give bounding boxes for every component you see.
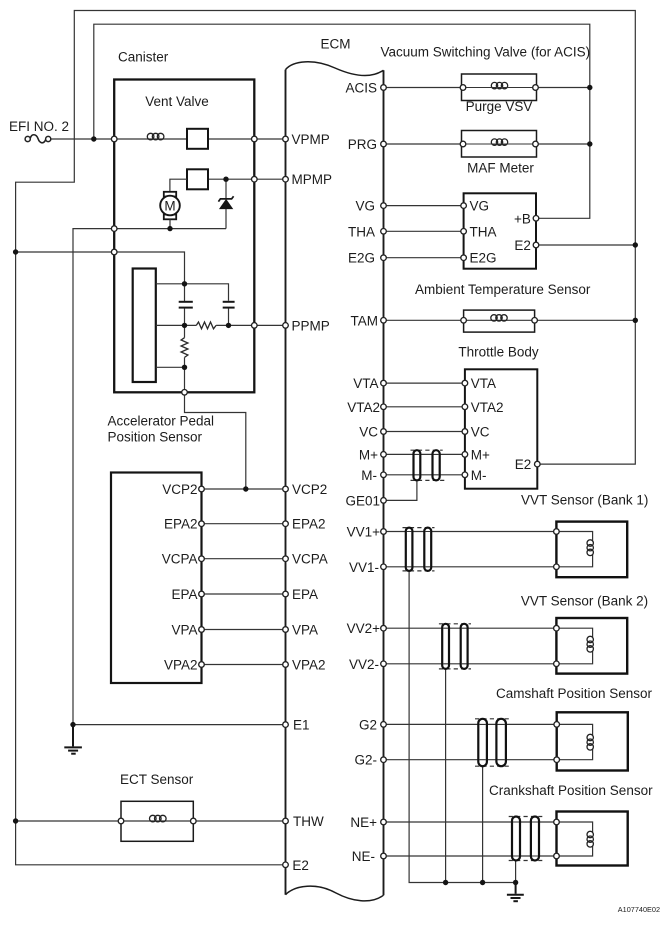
VVT sensor (bank 1) box	[556, 522, 627, 578]
pin APP VCP2	[199, 486, 205, 492]
pin MAF E2	[533, 242, 539, 248]
pin ECM E2b	[283, 862, 289, 868]
svg-text:VV2+: VV2+	[347, 621, 381, 636]
vacuum switching valve (purge VSV) box	[462, 74, 537, 101]
pin cam +	[554, 722, 560, 728]
junction E2/THW	[13, 818, 18, 823]
inductor MAF VSV coil	[491, 139, 507, 145]
valve (pump module) square	[187, 169, 208, 189]
pin APP EPA	[199, 591, 205, 597]
junction diode top	[223, 177, 228, 182]
wire ECT sensor to THW	[193, 820, 285, 822]
svg-text:THA: THA	[470, 224, 497, 239]
wire E2G row	[384, 257, 464, 259]
wire VPA2 row	[202, 664, 286, 666]
pin ECM GE01	[381, 498, 387, 504]
shielded pair NE	[509, 817, 543, 861]
capacitor C1	[179, 284, 193, 326]
canister box	[114, 80, 254, 393]
svg-text:PRG: PRG	[348, 137, 377, 152]
svg-text:VPA: VPA	[171, 623, 197, 638]
svg-text:Camshaft Position Sensor: Camshaft Position Sensor	[496, 686, 653, 701]
svg-text:Position Sensor: Position Sensor	[108, 430, 203, 445]
wire MAF VSV to +B net	[536, 143, 590, 145]
svg-text:Vent Valve: Vent Valve	[145, 94, 209, 109]
wire VV1- row	[384, 566, 557, 568]
vacuum switching valve (MAF purge) box	[462, 131, 537, 158]
wire M- row	[384, 474, 465, 476]
svg-text:VTA2: VTA2	[347, 400, 380, 415]
wire VCPA row	[202, 558, 286, 560]
pin ECM VPA2	[283, 662, 289, 668]
pin VVT1 +	[554, 529, 560, 535]
inductor TAM coil	[491, 315, 507, 321]
pin ECM NE+	[381, 819, 387, 825]
svg-text:Accelerator Pedal: Accelerator Pedal	[108, 414, 215, 429]
ECM-SECTION	[286, 62, 384, 901]
junction E1/ground	[70, 722, 75, 727]
junction E2/canister	[13, 249, 18, 254]
shielded pair VV1	[403, 528, 435, 571]
junction +B/purge	[587, 85, 592, 90]
wire EPA2 row	[202, 523, 286, 525]
inductor ECT thermistor coil	[150, 815, 167, 822]
ECM left boundary line	[285, 70, 287, 895]
wire GE01 to M shield	[384, 480, 417, 500]
pin APP VPA	[199, 627, 205, 633]
inductor crankshaft coil	[587, 831, 593, 847]
wire bottom terminal to canister bottom pin	[184, 367, 186, 392]
wire VTA2 row	[384, 406, 465, 408]
svg-text:Crankshaft Position Sensor: Crankshaft Position Sensor	[489, 783, 653, 798]
pin APP EPA2	[199, 521, 205, 527]
svg-text:TAM: TAM	[351, 313, 379, 328]
wire camshaft sensor internal	[557, 724, 593, 759]
wire sensor bottom terminal row	[156, 366, 185, 368]
node TAM R	[532, 318, 538, 324]
pin APP VCPA	[199, 556, 205, 562]
node canister VCP2 out	[182, 390, 188, 396]
node canister MPMP out	[252, 176, 258, 182]
node canister VPMP in	[111, 136, 117, 142]
wire inside TAM sensor	[464, 319, 535, 321]
wire G2- row	[384, 759, 557, 761]
inductor VVT2 coil	[587, 636, 593, 652]
svg-text:M+: M+	[471, 447, 490, 462]
junction drain NE/gnd	[513, 880, 518, 885]
svg-text:VV1-: VV1-	[349, 560, 379, 575]
pin ECM EPA2	[283, 521, 289, 527]
pressure sensor element (canister)	[133, 269, 156, 383]
wire inside purge VSV	[463, 87, 536, 89]
svg-text:ACIS: ACIS	[345, 81, 377, 96]
pin ECM G2-	[381, 757, 387, 763]
pin ECM VTA	[381, 380, 387, 386]
svg-text:ECM: ECM	[321, 37, 351, 52]
svg-text:Vacuum Switching Valve (for AC: Vacuum Switching Valve (for ACIS)	[381, 45, 591, 60]
svg-text:EPA: EPA	[292, 587, 318, 602]
pin TB VTA2	[462, 404, 468, 410]
pin ECM VPA	[283, 627, 289, 633]
wire inside MAF VSV	[463, 143, 536, 145]
svg-text:VPMP: VPMP	[292, 132, 330, 147]
svg-text:VCP2: VCP2	[162, 482, 197, 497]
inductor VVT1 coil	[587, 540, 593, 556]
pin ECM G2	[381, 722, 387, 728]
pin APP VPA2	[199, 662, 205, 668]
svg-text:VTA: VTA	[471, 376, 496, 391]
wire E2 branch to canister sensor supply pin	[16, 251, 115, 253]
pin ECM VV1+	[381, 529, 387, 535]
inductor purge VSV coil	[491, 82, 507, 88]
pin circles	[111, 85, 559, 868]
pin TB VC	[462, 429, 468, 435]
pin cam -	[554, 757, 560, 763]
wire TAM to sensor	[384, 319, 464, 321]
wire VCP2 row	[202, 488, 286, 490]
node MAF VSV R	[533, 141, 539, 147]
resistor (vertical)	[181, 325, 188, 367]
pin ECM VV2-	[381, 661, 387, 667]
pin TB VTA	[462, 380, 468, 386]
wire PRG to MAF VSV	[384, 143, 464, 145]
wire VG row	[384, 205, 464, 207]
wire THA row	[384, 230, 464, 232]
junction sensor row2b	[226, 323, 231, 328]
svg-text:Ambient Temperature Sensor: Ambient Temperature Sensor	[415, 282, 591, 297]
wire through ECT sensor	[121, 820, 193, 822]
motor M (pump)	[160, 192, 180, 229]
wire NE shield drain	[515, 861, 517, 883]
pin TB M+	[462, 452, 468, 458]
wire M+ row	[384, 453, 465, 455]
ECM top wave	[286, 62, 384, 76]
pin ECM PPMP	[283, 323, 289, 329]
wire sensor top terminal row	[156, 284, 229, 301]
wire VVT1 internal	[556, 532, 592, 567]
svg-text:EPA2: EPA2	[164, 517, 198, 532]
wire G2 row	[384, 723, 557, 725]
wire square to motor	[170, 179, 187, 192]
pin VVT2 -	[554, 661, 560, 667]
svg-text:VG: VG	[470, 199, 490, 214]
pin ECM VG	[381, 203, 387, 209]
wire VPMP row inside canister	[114, 138, 254, 140]
pin VVT1 -	[554, 564, 560, 570]
node ECT R	[191, 818, 197, 824]
svg-text:EPA2: EPA2	[292, 517, 326, 532]
junction E2/MAF	[633, 242, 638, 247]
ECM right boundary line	[383, 70, 385, 895]
wire +B net: inner top loop	[94, 24, 590, 218]
wire resistor to PPMP exit	[216, 324, 285, 326]
svg-text:VC: VC	[471, 425, 490, 440]
svg-text:GE01: GE01	[345, 493, 380, 508]
pin ECM VC	[381, 429, 387, 435]
wire VC row	[384, 431, 465, 433]
svg-text:E2: E2	[292, 858, 309, 873]
svg-text:E1: E1	[293, 718, 310, 733]
svg-text:EPA: EPA	[171, 587, 197, 602]
wire VV2- row	[384, 663, 557, 665]
MAF meter box	[464, 193, 536, 268]
svg-text:A107740E02: A107740E02	[618, 905, 660, 914]
svg-text:M+: M+	[359, 447, 378, 462]
svg-text:VCPA: VCPA	[292, 552, 328, 567]
inductor vent valve coil	[147, 133, 164, 140]
pin ECM VPMP	[283, 136, 289, 142]
wire E2 branch to ECT sensor	[16, 820, 121, 822]
wire EPA row	[202, 593, 286, 595]
svg-text:E2G: E2G	[470, 251, 497, 266]
wire G2 shield drain	[482, 766, 484, 882]
junction motor return	[167, 226, 172, 231]
wire ACIS to purge VSV	[384, 87, 464, 89]
pin crank -	[554, 853, 560, 859]
svg-text:Throttle Body: Throttle Body	[458, 344, 539, 359]
node purge VSV L	[460, 85, 466, 91]
pin ECM E1	[283, 722, 289, 728]
wire VTA row	[384, 382, 465, 384]
svg-text:VTA: VTA	[353, 376, 378, 391]
svg-text:VV1+: VV1+	[347, 525, 381, 540]
svg-text:VCPA: VCPA	[162, 552, 198, 567]
ECT sensor box	[121, 801, 193, 841]
svg-text:THW: THW	[293, 814, 324, 829]
svg-text:M: M	[164, 198, 175, 213]
pin ECM NE-	[381, 853, 387, 859]
wire VV1+ row	[384, 531, 557, 533]
svg-text:M-: M-	[471, 468, 487, 483]
node ECT L	[118, 818, 124, 824]
inductor camshaft coil	[587, 734, 593, 750]
svg-text:VVT Sensor (Bank 2): VVT Sensor (Bank 2)	[521, 593, 648, 608]
shielded pair G2	[475, 719, 509, 766]
wire motor/diode bottom return	[114, 228, 226, 230]
pin ECM VV1-	[381, 564, 387, 570]
wire VPA row	[202, 629, 286, 631]
junction sensor row3	[182, 365, 187, 370]
pin MAF THA	[461, 229, 467, 235]
svg-text:G2: G2	[359, 717, 377, 732]
pin ECM EPA	[283, 591, 289, 597]
svg-text:VTA2: VTA2	[471, 400, 504, 415]
wire MPMP row	[208, 178, 286, 180]
pin ECM M+	[381, 452, 387, 458]
junction EFI/+B	[91, 136, 96, 141]
wire canister VCP2 feed down to VCP2 row	[185, 392, 246, 489]
camshaft position sensor box	[557, 712, 628, 770]
valve (vent valve actuator) square	[187, 129, 208, 149]
svg-text:Canister: Canister	[118, 50, 169, 65]
wire NE- row	[384, 855, 557, 857]
pin ECM THW	[283, 818, 289, 824]
pin ECM E2G	[381, 255, 387, 261]
node canister PPMP out	[252, 323, 258, 329]
wire canister pump return to E1	[73, 229, 286, 725]
pin ECM TAM	[381, 318, 387, 324]
node canister return	[111, 226, 117, 232]
svg-text:NE+: NE+	[350, 815, 377, 830]
resistor (horizontal)	[196, 322, 216, 329]
pin MAF VG	[461, 203, 467, 209]
svg-text:Purge VSV: Purge VSV	[466, 99, 533, 114]
svg-text:PPMP: PPMP	[292, 318, 330, 333]
svg-text:MAF Meter: MAF Meter	[467, 160, 534, 175]
svg-text:M-: M-	[361, 468, 377, 483]
wire VV2+ row	[384, 627, 557, 629]
wire NE+ row	[384, 821, 557, 823]
RIGHT-SECTION	[384, 88, 636, 883]
svg-text:+B: +B	[514, 211, 531, 226]
pin TB E2	[535, 461, 541, 467]
node purge VSV R	[533, 85, 539, 91]
svg-text:E2G: E2G	[348, 251, 375, 266]
wire TAM sensor to right E2 net	[535, 319, 636, 321]
wire VV1 shield drain	[409, 571, 515, 883]
pin MAF +B	[533, 216, 539, 222]
node canister supply	[111, 249, 117, 255]
fuse EFI NO. 2	[25, 135, 51, 143]
junction E2/TAM	[633, 318, 638, 323]
node MAF VSV L	[460, 141, 466, 147]
shielded pair VV2	[439, 624, 471, 669]
svg-text:VG: VG	[355, 199, 375, 214]
junction sensor row1	[182, 281, 187, 286]
pin ECM VCPA	[283, 556, 289, 562]
pin ECM ACIS	[381, 85, 387, 91]
svg-text:EFI NO. 2: EFI NO. 2	[9, 119, 69, 134]
pin ECM VV2+	[381, 625, 387, 631]
wire crankshaft sensor internal	[557, 822, 593, 856]
ambient temperature sensor box	[464, 310, 535, 332]
wire VV2 shield drain	[445, 669, 447, 883]
svg-text:THA: THA	[348, 224, 375, 239]
wire MAF E2 to right E2 net	[536, 244, 635, 246]
pin VVT2 +	[554, 625, 560, 631]
svg-text:VC: VC	[359, 425, 378, 440]
VVT sensor (bank 2) box	[556, 618, 627, 674]
svg-text:VVT Sensor (Bank 1): VVT Sensor (Bank 1)	[521, 492, 648, 507]
svg-text:VCP2: VCP2	[292, 482, 327, 497]
pin ECM VTA2	[381, 404, 387, 410]
ECM bottom wave	[286, 886, 384, 901]
wire sensor supply: pin to top rail	[114, 252, 184, 284]
svg-text:VPA2: VPA2	[292, 658, 326, 673]
node TAM L	[461, 318, 467, 324]
throttle body box	[465, 369, 537, 488]
svg-text:VPA: VPA	[292, 623, 318, 638]
junction VCP2	[243, 486, 248, 491]
wire VPMP canister to ECM	[254, 138, 285, 140]
capacitor C2	[223, 302, 235, 326]
junction sensor row2a	[182, 323, 187, 328]
pin ECM M-	[381, 472, 387, 478]
svg-text:G2-: G2-	[354, 753, 377, 768]
pin MAF E2G	[461, 255, 467, 261]
wire PPMP middle row	[156, 324, 197, 326]
junction drain G2	[480, 880, 485, 885]
pin ECM VCP2	[283, 486, 289, 492]
svg-text:ECT Sensor: ECT Sensor	[120, 772, 194, 787]
node canister VPMP out	[252, 136, 258, 142]
svg-text:MPMP: MPMP	[292, 172, 333, 187]
pin ECM MPMP	[283, 176, 289, 182]
wire EFI NO.2 fuse to canister VPMP pin	[51, 138, 114, 140]
crankshaft position sensor box	[557, 812, 628, 866]
junction drain VV2	[443, 880, 448, 885]
wire purge VSV to +B net	[536, 87, 590, 89]
diode (zener) across motor	[218, 179, 233, 228]
ground (shield drain, bottom)	[507, 883, 524, 902]
pin ECM PRG	[381, 141, 387, 147]
pin TB M-	[462, 472, 468, 478]
pin ECM THA	[381, 229, 387, 235]
svg-text:E2: E2	[514, 238, 531, 253]
svg-text:E2: E2	[515, 457, 532, 472]
shielded pair M+/M-	[411, 450, 446, 480]
junction +B/MAF VSV	[587, 141, 592, 146]
pin crank +	[554, 819, 560, 825]
ground (E1 net, left)	[64, 725, 82, 754]
svg-text:NE-: NE-	[352, 849, 375, 864]
svg-text:VPA2: VPA2	[164, 658, 198, 673]
accelerator pedal position sensor box	[111, 473, 202, 684]
svg-text:VV2-: VV2-	[349, 657, 379, 672]
wire VVT2 internal	[556, 628, 592, 664]
